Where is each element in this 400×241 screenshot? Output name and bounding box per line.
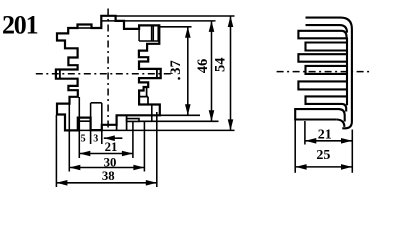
- side fin 3: [306, 43, 348, 51]
- side fin 4: [298, 54, 347, 62]
- svg-text:21: 21: [105, 140, 118, 154]
- extension line 46-bottom: [139, 120, 219, 122]
- extension line 54-top: [116, 15, 235, 17]
- dimension 54 arrow: [230, 16, 232, 130]
- top-right block: slot walls: [139, 25, 158, 41]
- dimension 21 arrow: [79, 153, 133, 155]
- flange bottom curve into spine foot: [337, 120, 345, 127]
- extension line 38-left: [55, 115, 57, 187]
- side fin 7: [306, 96, 348, 111]
- heatsink front-view cross-section outline: [56, 16, 161, 131]
- right lower fin box neck: [139, 87, 148, 105]
- extension line 30-left: [68, 104, 70, 172]
- rib hanging in bottom recess (left): [78, 118, 91, 122]
- dimension 38 arrow: [56, 182, 156, 184]
- slot root lines on top edge: [78, 27, 92, 29]
- side fin 6: [298, 81, 347, 89]
- extension line 25-left (side): [294, 121, 296, 173]
- dimension 46 arrow: [211, 21, 213, 121]
- top-right block: slot floor: [139, 40, 159, 42]
- extension line 38-right: [156, 112, 158, 187]
- side view: spine with fins: [295, 18, 352, 129]
- vertical centerline (front view): [107, 9, 109, 129]
- dimension 30 arrow: [69, 167, 144, 169]
- svg-text:30: 30: [104, 155, 117, 169]
- flange top inner curve: [339, 109, 345, 121]
- side view top fin + spine outer: [306, 18, 352, 129]
- extension line dim5/3 a: [90, 103, 92, 144]
- svg-text:54: 54: [212, 57, 228, 72]
- ink dot before 37 label: [178, 77, 181, 80]
- bottom hanging block sides: [117, 115, 127, 130]
- extension line 21-left (side): [304, 121, 306, 145]
- extension line 30-right: [143, 121, 145, 172]
- extension line 37-top: [159, 26, 191, 28]
- extension line 37-bottom: [160, 114, 200, 116]
- side flange: [295, 109, 338, 119]
- svg-text:37: 37: [168, 60, 184, 75]
- svg-text:46: 46: [195, 59, 211, 74]
- extension line 46-top: [101, 20, 215, 22]
- svg-text:38: 38: [102, 169, 115, 183]
- extension line 21-left: [78, 97, 80, 158]
- svg-text:3: 3: [93, 134, 98, 145]
- horizontal centerline (front view): [36, 73, 172, 75]
- root line over bottom tab B: [91, 102, 102, 104]
- extension line right (side spine): [351, 130, 353, 173]
- extension line 54-bottom: [65, 129, 235, 131]
- inner line of right center tab: [156, 69, 158, 78]
- side view top fin bottom + spine inner: [306, 25, 348, 105]
- svg-text:21: 21: [318, 128, 332, 143]
- svg-text:25: 25: [316, 148, 330, 163]
- svg-text:5: 5: [81, 134, 86, 145]
- side fin 5: [306, 66, 348, 74]
- inner vertical right-bottom: [151, 105, 153, 122]
- dimension 25 (side): [296, 166, 352, 168]
- side view centerline: [277, 71, 372, 73]
- extension line 21-right: [132, 121, 134, 158]
- svg-text:201: 201: [2, 11, 38, 40]
- leader arrow for 3: [104, 137, 123, 139]
- extension line dim5/3 b: [101, 103, 103, 144]
- inner line of left center tab: [59, 70, 61, 79]
- dimension 21 (side): [305, 140, 352, 142]
- dimension 37 arrow: [187, 27, 189, 116]
- rib hanging in bottom recess (right): [127, 119, 139, 122]
- side fin 2: [298, 31, 347, 39]
